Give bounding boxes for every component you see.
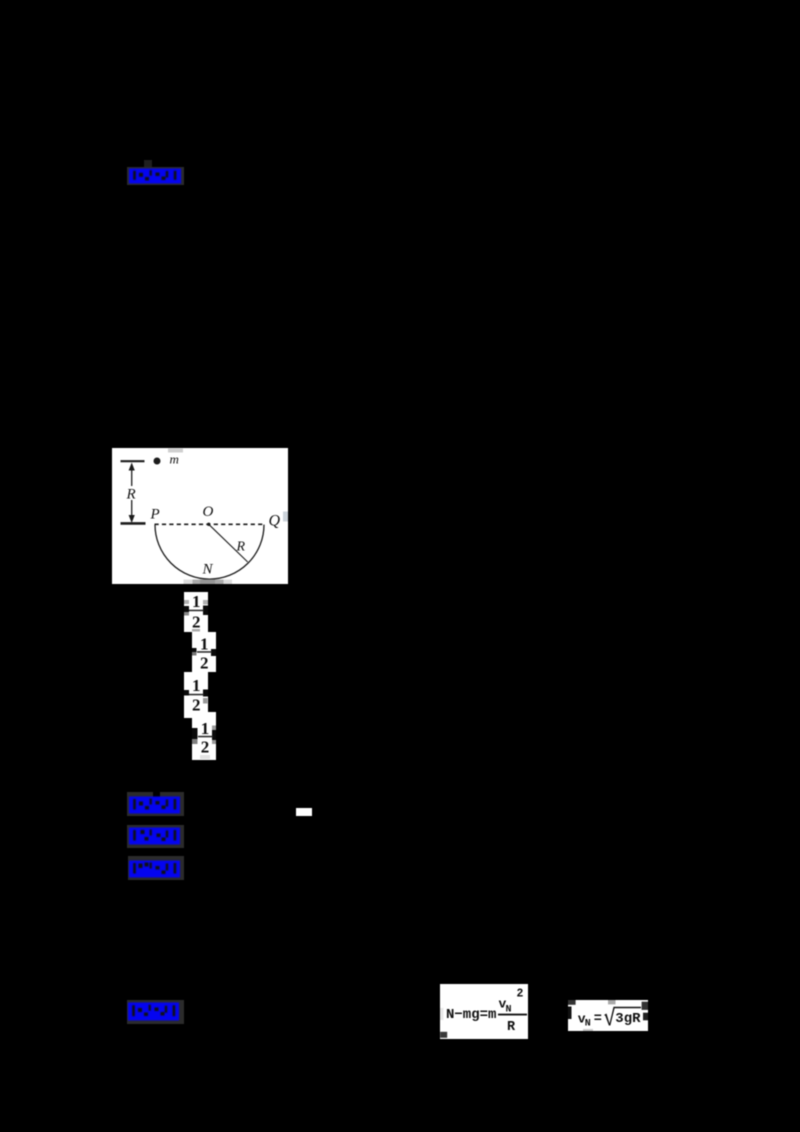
svg-text:O: O — [203, 504, 214, 520]
arrowheads — [129, 463, 135, 471]
svg-text:2: 2 — [200, 654, 209, 672]
fraction box 3 — [184, 672, 208, 718]
ball m — [154, 458, 161, 465]
svg-text:N: N — [585, 1019, 591, 1030]
physics diagram — [112, 448, 288, 584]
semicircle arc — [155, 525, 264, 580]
center dot O — [207, 523, 210, 526]
gray smudges — [168, 449, 183, 453]
svg-text:3gR: 3gR — [615, 1011, 641, 1027]
labels — [126, 452, 281, 578]
svg-text:2: 2 — [201, 738, 210, 757]
top hash line — [121, 460, 145, 462]
svg-text:m: m — [170, 452, 179, 467]
bottom hash line — [121, 522, 146, 525]
arrow shaft upper — [131, 468, 133, 486]
diagram white box — [112, 448, 288, 584]
svg-text:R: R — [507, 1020, 516, 1035]
fraction box 1 — [184, 592, 208, 632]
svg-text:P: P — [150, 507, 160, 523]
label answer — [127, 167, 184, 185]
svg-text:R: R — [126, 487, 136, 503]
gray blob above label answer — [144, 160, 152, 167]
svg-text:2: 2 — [192, 613, 201, 632]
svg-text:=: = — [594, 1012, 602, 1027]
dashed line P-Q — [155, 523, 265, 525]
svg-text:1: 1 — [192, 592, 201, 611]
formula box B: vN = sqrt(3gR) — [568, 1000, 648, 1031]
fraction box 2 — [192, 632, 216, 672]
svg-text:1: 1 — [192, 676, 201, 695]
svg-text:1: 1 — [200, 635, 209, 654]
svg-text:2: 2 — [517, 988, 524, 1001]
svg-text:R: R — [236, 540, 246, 555]
label keypoint — [127, 792, 184, 816]
formula box A: N-mg=m vN^2/R — [440, 984, 528, 1039]
arrow shaft lower — [131, 500, 133, 517]
radical sign — [604, 1007, 641, 1026]
label analysis — [128, 856, 185, 880]
fraction box 4 — [192, 712, 216, 760]
radius line — [209, 524, 248, 562]
svg-text:N−mg=m: N−mg=m — [446, 1007, 496, 1023]
label topic — [127, 825, 184, 848]
svg-text:N: N — [202, 562, 214, 578]
svg-text:Q: Q — [269, 513, 281, 530]
small white rect — [296, 808, 312, 816]
label solution — [127, 1000, 184, 1025]
svg-text:1: 1 — [201, 719, 210, 738]
